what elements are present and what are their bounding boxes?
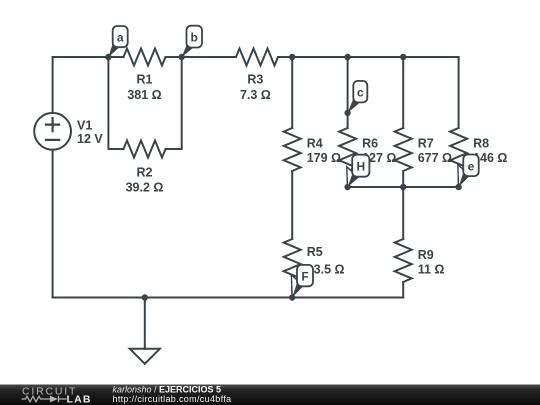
svg-text:677 Ω: 677 Ω xyxy=(418,151,452,165)
node b junction dot xyxy=(179,54,185,60)
node F flag xyxy=(291,265,313,298)
wire ground stem xyxy=(144,298,146,349)
wire top rail from V1 to R1 xyxy=(53,56,124,58)
svg-text:7.3 Ω: 7.3 Ω xyxy=(240,88,271,102)
svg-text:LAB: LAB xyxy=(67,394,92,405)
svg-text:karlonsho / EJERCICIOS 5: karlonsho / EJERCICIOS 5 xyxy=(113,385,222,395)
wire R5 bottom lead xyxy=(291,282,293,298)
CircuitLab logo resistor-diode squiggle xyxy=(22,396,67,402)
wire node a down branch xyxy=(108,57,123,149)
voltage source V1 xyxy=(34,113,71,150)
wire V1 bottom lead xyxy=(52,150,54,298)
wire R8 bottom lead xyxy=(458,171,460,187)
svg-text:a: a xyxy=(117,31,124,45)
svg-text:381 Ω: 381 Ω xyxy=(127,88,161,102)
svg-text:R1: R1 xyxy=(137,73,153,87)
svg-text:179 Ω: 179 Ω xyxy=(307,151,341,165)
junction dot rail R7 xyxy=(400,184,406,190)
wire column R7 top lead xyxy=(402,57,404,128)
wire V1 top lead xyxy=(52,57,54,113)
svg-text:F: F xyxy=(301,270,308,284)
svg-text:R8: R8 xyxy=(473,137,489,151)
node b flag xyxy=(182,26,202,57)
svg-text:R7: R7 xyxy=(418,137,434,151)
node H junction dot xyxy=(344,184,350,190)
junction dot top of R7 xyxy=(400,54,406,60)
footer bar xyxy=(0,385,540,405)
resistor R1 xyxy=(124,49,166,66)
svg-text:R2: R2 xyxy=(137,165,153,179)
resistor R3 xyxy=(236,49,278,66)
wire column R4 top lead xyxy=(291,57,293,128)
ground symbol xyxy=(130,349,160,364)
wire R9 bottom lead xyxy=(402,282,404,298)
wire top rail right of R3 xyxy=(278,56,459,58)
svg-text:R3: R3 xyxy=(247,73,263,87)
svg-text:R6: R6 xyxy=(362,137,378,151)
wire column R6 top lead with node c xyxy=(347,57,349,128)
resistor R7 xyxy=(395,128,412,171)
svg-text:39.2 Ω: 39.2 Ω xyxy=(126,180,164,194)
ground junction dot xyxy=(142,294,148,300)
wire rail node H to node e xyxy=(348,186,459,188)
resistor R9 xyxy=(395,239,412,282)
wire R7 to R9 xyxy=(402,171,404,239)
node e junction dot xyxy=(455,184,461,190)
wire bottom ground rail xyxy=(53,297,404,299)
svg-text:e: e xyxy=(468,159,475,173)
node H flag xyxy=(347,155,370,187)
svg-text:b: b xyxy=(191,30,198,44)
wire from R1 through node b to R3 xyxy=(166,56,237,58)
resistor R4 xyxy=(284,128,301,171)
svg-text:R5: R5 xyxy=(307,245,323,259)
resistor R6 xyxy=(339,128,356,171)
svg-text:c: c xyxy=(357,86,364,100)
wire R6 bottom lead xyxy=(347,171,349,187)
node c junction dot xyxy=(344,110,350,116)
wire column R8 top lead xyxy=(458,57,460,128)
svg-text:http://circuitlab.com/cu4bffa: http://circuitlab.com/cu4bffa xyxy=(113,394,232,404)
node a flag xyxy=(108,26,127,57)
svg-text:H: H xyxy=(356,160,365,174)
resistor R2 xyxy=(124,141,166,158)
junction dot bottom of R5 xyxy=(289,294,295,300)
node e flag xyxy=(458,155,479,188)
resistor R8 xyxy=(450,128,467,171)
junction dot top of R4 xyxy=(289,54,295,60)
junction dot top of R6 xyxy=(344,54,350,60)
svg-text:R4: R4 xyxy=(307,137,323,151)
node a junction dot xyxy=(105,54,111,60)
node c flag xyxy=(348,81,368,113)
svg-text:11 Ω: 11 Ω xyxy=(418,263,445,277)
resistor R5 xyxy=(284,239,301,282)
wire R4 to R5 xyxy=(291,171,293,239)
svg-text:R9: R9 xyxy=(418,248,434,262)
svg-text:V1: V1 xyxy=(77,119,92,133)
svg-text:12 V: 12 V xyxy=(77,132,103,146)
wire R2 to node b branch xyxy=(166,57,182,149)
